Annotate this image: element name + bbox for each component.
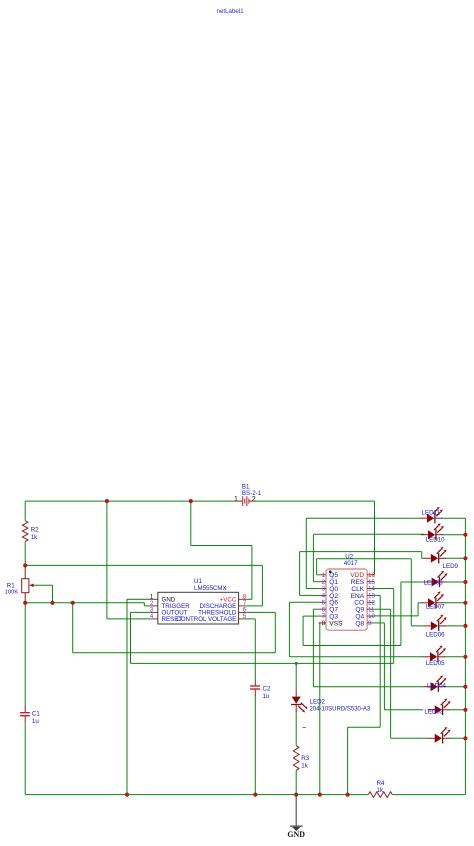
potentiometer R1 100K	[5, 565, 34, 602]
capacitor C2 1u	[250, 680, 271, 700]
battery B1 BS-2-1	[234, 483, 262, 506]
wire LED cathode to bus	[446, 581, 466, 583]
svg-text:LED2: LED2	[310, 698, 326, 705]
junction on LED bus	[463, 624, 467, 628]
svg-text:8: 8	[322, 620, 326, 627]
wire U2 pin 13 ENA stub link right	[374, 594, 380, 596]
U2 left pin names	[329, 572, 343, 627]
junction	[71, 601, 75, 605]
wire LED cathode to bus	[449, 709, 465, 711]
wire RESET net vertical from VCC rail	[106, 501, 108, 619]
wire ENA net vertical down	[379, 595, 381, 727]
U2 pin stubs right	[367, 575, 374, 623]
wire Q2-LED9 horizontal above U2	[300, 551, 422, 553]
wire R1 wiper drop to TRIGGER line	[52, 585, 54, 603]
wire LED cathode bus vertical	[464, 518, 466, 794]
junction on LED bus	[463, 556, 467, 560]
wire TRIG-THR vertical link at x72	[72, 603, 74, 653]
wire Q1-LED10 horizontal	[313, 533, 424, 535]
wire LED cathode to bus	[445, 625, 465, 627]
svg-text:LED11: LED11	[422, 510, 441, 517]
svg-text:1u: 1u	[263, 693, 270, 700]
svg-text:R3: R3	[301, 755, 309, 762]
wire LED06 anode horizontal	[411, 625, 424, 627]
svg-text:2: 2	[252, 496, 256, 503]
U2 right pin names	[350, 572, 365, 627]
svg-text:LM555CMX: LM555CMX	[194, 585, 227, 592]
wire LED cathode to bus	[442, 534, 465, 536]
svg-text:CONTROL VOLTAGE: CONTROL VOLTAGE	[176, 616, 236, 623]
wire Q4-LED07 vertical up	[417, 603, 419, 616]
wire C1 bottom to ground rail	[24, 723, 26, 795]
wire R2 bottom to node R2-R1	[24, 541, 26, 565]
svg-text:1k: 1k	[31, 534, 38, 541]
wire LED2 cathode to R3 top	[295, 711, 297, 746]
wire top VCC rail right of battery B1	[254, 500, 375, 502]
junction	[23, 563, 27, 567]
svg-text:1u: 1u	[32, 718, 39, 725]
wire +VCC net vertical from rail junction	[190, 501, 192, 545]
wire CLK net vertical up to U2 pin 14	[393, 589, 395, 664]
wire U2 pin 4 Q2 stub link left	[300, 594, 319, 596]
LED LED08	[424, 571, 448, 588]
wire THRESHOLD net vertical down	[274, 612, 276, 652]
resistor R4 1k	[368, 780, 392, 797]
wire Q9 net vertical down	[390, 609, 392, 738]
wire U2 pin 8 VSS stub link left	[319, 622, 320, 624]
wire U1 pin 5 CONTROL VOLTAGE to C2 column	[246, 618, 255, 620]
wire Q7 net vertical down	[312, 609, 314, 687]
wire Q3-LED08 vertical up	[400, 582, 402, 646]
wire U2 pin 10 Q4 horizontal right	[374, 615, 418, 617]
wire Q5-LED06 vertical down right of U2	[410, 559, 412, 626]
U2 pin stubs left	[319, 575, 326, 623]
counter U2 4017 body	[326, 554, 367, 631]
svg-text:LED07: LED07	[426, 604, 445, 611]
junction	[23, 601, 27, 605]
svg-text:LED10: LED10	[426, 536, 445, 543]
svg-text:LED03: LED03	[424, 709, 443, 716]
svg-text:LED08: LED08	[424, 579, 443, 586]
LED LED10	[421, 523, 445, 543]
wire Q0 net vertical up	[305, 518, 307, 588]
U2 pin numbers right 16-9	[368, 572, 376, 627]
wire U2 pin 5 Q6 stub link left	[289, 601, 318, 603]
svg-text:R2: R2	[31, 527, 39, 534]
wire TRIGGER line from R1 bottom node to U1 pin 2	[25, 602, 144, 604]
wire R3 bottom to ground rail	[295, 770, 297, 794]
svg-text:LED9: LED9	[443, 563, 459, 570]
wire LED cathode to bus	[445, 557, 465, 559]
wire Q0-LED11 horizontal	[306, 517, 420, 519]
LED LED06	[424, 615, 447, 639]
svg-text:LED04: LED04	[427, 683, 446, 690]
wire +VCC net horizontal to x252	[191, 545, 252, 547]
wire Q8-LED03 horizontal	[384, 709, 423, 711]
LED LED2 204-10SURD/S530-A3 indicator	[291, 689, 371, 712]
svg-text:C1: C1	[32, 710, 40, 717]
svg-text:VSS: VSS	[329, 620, 343, 627]
svg-text:LED06: LED06	[426, 632, 445, 639]
wire C1 top from TRIGGER node	[24, 603, 26, 705]
wire TRIGGER jog at U1 pin 2	[143, 603, 145, 606]
junction on LED bus	[463, 736, 467, 740]
wire ground rail between R4 and LED bus	[392, 794, 465, 796]
ground symbol GND	[287, 795, 305, 839]
wire Q2-LED9 jog vertical	[421, 552, 423, 559]
wire LED08 anode horizontal	[401, 581, 425, 583]
wire ENA net vertical down to ground rail	[347, 727, 349, 794]
wire U2 pin 7 Q3 stub link left	[303, 615, 319, 617]
LED LED04	[423, 675, 446, 692]
wire Q5-LED06 horizontal above U2	[317, 558, 412, 560]
junction on LED bus	[463, 601, 467, 605]
wire U2 pin 11 Q9 stub link right	[374, 608, 390, 610]
LED LED07	[421, 592, 445, 611]
wire Q3 net vertical down	[302, 616, 304, 645]
LED LED03	[424, 699, 450, 716]
wire VSS net vertical down to ground rail	[319, 623, 321, 795]
wire ground rail bottom left section	[25, 794, 368, 796]
svg-text:C2: C2	[263, 685, 271, 692]
resistor R3 1k	[293, 746, 309, 771]
svg-text:1k: 1k	[301, 762, 308, 769]
wire R1 wiper to TRIGGER node horizontal	[33, 584, 52, 586]
U2 pin numbers left 1-8	[322, 572, 326, 627]
wire CLK horizontal into U2 pin 14	[374, 588, 393, 590]
svg-text:204-10SURD/S530-A3: 204-10SURD/S530-A3	[310, 707, 371, 713]
junction	[105, 499, 109, 503]
LED LED05	[423, 646, 446, 668]
wire Q8 net vertical down	[383, 623, 385, 710]
wire DISCHARGE net vertical down to U1 pin 7	[261, 565, 263, 606]
wire U2 pin 1 Q5 stub link left	[317, 574, 319, 576]
wire OUT-CLK long horizontal line	[131, 662, 394, 664]
wire DISCHARGE net horizontal from R1 top node to x262	[25, 564, 262, 566]
junction on LED bus	[463, 533, 467, 537]
wire U1 pin 1 GND to x127	[127, 598, 150, 600]
LED LED11	[420, 507, 443, 524]
wire Q6 net vertical down	[288, 602, 290, 657]
junction on LED bus	[463, 708, 467, 712]
svg-text:netLabel1: netLabel1	[217, 8, 245, 15]
LED2 minus polarity mark	[303, 727, 306, 729]
wire LED07 anode horizontal	[418, 602, 421, 604]
wire U2 pin 9 Q8 stub link right	[374, 622, 384, 624]
junction on LED bus	[463, 580, 467, 584]
wire Q2 net vertical up	[299, 552, 301, 596]
wire THRESHOLD net horizontal back to x72	[73, 652, 276, 654]
wire Q6-LED05 horizontal	[289, 656, 423, 658]
junction	[50, 601, 54, 605]
wire U1 pin 8 stub link	[246, 598, 252, 600]
wire Q5 net vertical up	[316, 559, 318, 575]
wire LED9 anode horizontal	[422, 557, 424, 559]
LED LED9	[424, 547, 459, 570]
wire LED cathode to bus	[449, 737, 465, 739]
svg-text:4017: 4017	[344, 560, 358, 567]
wire LED cathode to bus	[441, 517, 465, 519]
wire C2 bottom to ground rail	[254, 696, 256, 795]
junction	[125, 793, 129, 797]
svg-text:GND: GND	[287, 830, 305, 839]
svg-text:1k: 1k	[377, 787, 384, 794]
wire U2 pin 2 Q1 stub link left	[313, 581, 318, 583]
wire LED cathode to bus	[445, 686, 466, 688]
capacitor C1 1u	[20, 705, 40, 725]
wire U1 pin 6 THRESHOLD to x275	[246, 611, 275, 613]
wire LED cathode to bus	[444, 656, 465, 658]
wire U2 pin 6 Q7 stub link left	[313, 608, 318, 610]
wire LED2 anode from OUT-CLK line	[295, 663, 297, 689]
LED LED02	[428, 727, 451, 744]
wire RESET net horizontal to U1 pin 4	[107, 618, 150, 620]
U1 pin stubs left	[150, 599, 158, 619]
wire top VCC rail left of battery B1	[25, 500, 237, 502]
svg-text:LED05: LED05	[426, 660, 445, 667]
junction	[294, 793, 298, 797]
wire GND net vertical x127 down to ground rail	[126, 599, 128, 794]
svg-text:100K: 100K	[5, 590, 19, 596]
junction	[253, 793, 257, 797]
junction	[189, 499, 193, 503]
junction	[318, 793, 322, 797]
junction LED2 tap on OUT line	[295, 662, 298, 665]
svg-text:Q8: Q8	[355, 620, 364, 627]
wire U1 pin 7 stub to DISCHARGE vertical	[246, 605, 262, 607]
wire U1 pin 3 OUTPUT to x130	[131, 611, 151, 613]
junction on LED bus	[463, 685, 467, 689]
wire C2 top vertical from U1 pin 5	[254, 619, 256, 680]
wire R2 top lead to VCC rail	[24, 501, 26, 521]
resistor R2 1k	[22, 521, 39, 542]
op-amp timer U1 LM555CMX body	[158, 578, 239, 624]
svg-text:1: 1	[234, 496, 238, 503]
wire VDD drop from VCC rail to U2 pin 16	[374, 501, 376, 575]
wire +VCC net vertical down to U1 pin 8	[251, 546, 253, 600]
wire ENA net horizontal toward ground	[348, 726, 381, 728]
wire Q3 net horizontal below U2	[303, 645, 401, 647]
wire Q7-LED04 horizontal	[313, 686, 423, 688]
svg-text:R1: R1	[7, 583, 15, 590]
wire U2 pin 3 Q0 stub link left	[306, 588, 318, 590]
svg-text:9: 9	[368, 620, 372, 627]
wire LED cathode to bus	[442, 602, 465, 604]
wire Q1 net vertical up	[312, 535, 314, 582]
wire Q9-LED02 horizontal	[391, 737, 428, 739]
wire OUT net vertical down to CLK line	[130, 612, 132, 663]
junction on LED bus	[463, 655, 467, 659]
junction	[346, 793, 350, 797]
U1 pin stubs right	[239, 599, 247, 619]
